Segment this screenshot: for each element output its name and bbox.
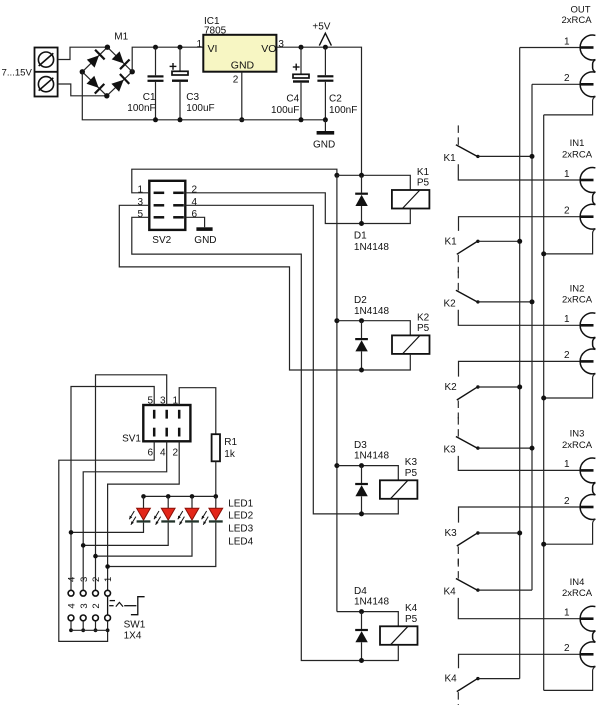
- wire OUT jack 1 pin row: [520, 47, 580, 49]
- svg-text:2: 2: [192, 184, 198, 195]
- bus OUT-1 vertical: [519, 48, 521, 679]
- LED2 emission arrows: [154, 511, 159, 519]
- wire K3a to OUT-2 bus: [478, 447, 532, 449]
- node LED3 cathode junction: [93, 554, 98, 559]
- LED anode rail: [144, 495, 216, 497]
- SW1 bottom stub col 3: [82, 621, 84, 631]
- node LED2 cathode junction: [81, 543, 86, 548]
- SW1 top contact circle col 1: [105, 590, 111, 596]
- wire bridge plus output to unregulated rail: [132, 47, 203, 71]
- svg-text:1: 1: [172, 396, 178, 407]
- svg-text:C3: C3: [186, 92, 199, 103]
- IN3 jack 2 shield arc: [580, 495, 595, 520]
- svg-text:IN3: IN3: [570, 429, 585, 440]
- node C3 top junction: [178, 45, 183, 50]
- terminal block X1 7...15V: [35, 48, 58, 97]
- wire K3 coil top row: [337, 466, 398, 481]
- OUT shield tail to ground bus: [544, 96, 596, 115]
- svg-text:1N4148: 1N4148: [354, 451, 389, 462]
- SW1 common rail: [71, 629, 108, 631]
- svg-text:P5: P5: [417, 178, 430, 189]
- relay coil K4: [380, 626, 418, 645]
- svg-text:3: 3: [79, 577, 90, 582]
- relay contact K3b lever: [457, 533, 478, 546]
- LED2: [167, 496, 169, 508]
- svg-text:SV1: SV1: [122, 434, 141, 445]
- wire SV1 pin 3 to SW1 column 2: [96, 375, 167, 590]
- wire K2 coil bottom row: [362, 354, 411, 370]
- capacitor C4 (electrolytic): [300, 47, 302, 74]
- IN4 shield bridge: [593, 631, 596, 642]
- IN1 jack 2 center pin: [580, 215, 594, 218]
- wire LED3 cathode to SW1: [96, 523, 193, 557]
- relay coil K2: [392, 335, 430, 354]
- LED4 emission arrows: [202, 511, 207, 519]
- svg-text:2: 2: [564, 643, 570, 654]
- svg-text:+5V: +5V: [312, 21, 330, 32]
- svg-text:K2: K2: [444, 298, 457, 309]
- svg-text:K3: K3: [445, 528, 458, 539]
- node C2 bottom junction: [323, 117, 328, 122]
- svg-text:1N4148: 1N4148: [354, 306, 389, 317]
- svg-text:1: 1: [137, 184, 143, 195]
- node D3 cathode junction: [359, 463, 364, 468]
- IN3 jack 1 center pin: [580, 469, 594, 472]
- wire K3 coil bottom row: [362, 499, 399, 514]
- relay contact K4a coupling (dashed): [457, 559, 459, 580]
- svg-text:VO: VO: [261, 43, 276, 55]
- wire terminal- to bridge AC2: [58, 84, 107, 96]
- bridge diode M1b (top vertex to right vertex): [112, 51, 124, 63]
- node IN1 shield on ground bus: [541, 251, 546, 256]
- svg-text:2: 2: [91, 603, 102, 608]
- wire IC1 GND pin to ground rail: [241, 72, 243, 120]
- SW1 bottom stub col 2: [95, 621, 97, 631]
- node D1 anode junction: [359, 221, 364, 226]
- svg-text:K4: K4: [445, 674, 458, 685]
- ground symbol below C2: [324, 120, 326, 131]
- svg-text:1: 1: [564, 608, 570, 619]
- SV1 pin bar bottom col 3: [178, 428, 181, 437]
- node D4 cathode junction: [359, 609, 364, 614]
- svg-text:1: 1: [196, 39, 202, 50]
- svg-text:GND: GND: [194, 235, 216, 246]
- wire +5V rail from IC1 VO: [276, 47, 361, 175]
- node +5V distribution at K2: [334, 318, 339, 323]
- svg-text:K3: K3: [405, 457, 418, 468]
- SW1 actuator ticks: [110, 600, 115, 602]
- svg-text:P5: P5: [405, 614, 418, 625]
- svg-text:1: 1: [564, 36, 570, 47]
- relay contact K1b coupling (dashed): [457, 255, 459, 273]
- wire SV2 pin 3 to K2 coil bottom: [119, 205, 361, 370]
- svg-text:1N4148: 1N4148: [354, 242, 389, 253]
- IN2 jack 1 center pin: [580, 324, 594, 327]
- OUT jack 2 center pin: [580, 83, 594, 86]
- wire K4a to OUT-2 bus: [478, 589, 532, 591]
- svg-text:100nF: 100nF: [329, 105, 357, 116]
- ground rail: [82, 72, 325, 120]
- svg-text:C2: C2: [329, 94, 342, 105]
- svg-text:100nF: 100nF: [127, 103, 155, 114]
- node bridge AC1 (top vertex): [105, 45, 110, 50]
- LED1 emission arrows: [129, 511, 134, 519]
- bridge diode M1a (left vertex to top vertex): [87, 55, 99, 67]
- wire LED2 cathode to SW1: [83, 523, 168, 546]
- IN4 shield tail to ground bus: [544, 666, 596, 690]
- svg-text:2: 2: [564, 73, 570, 84]
- wire LED4 cathode to SW1: [108, 523, 216, 567]
- svg-text:5: 5: [137, 209, 143, 220]
- relay contact K2b coupling (dashed): [457, 401, 459, 419]
- IN2 jack 1 shield arc: [580, 313, 595, 338]
- svg-text:6: 6: [147, 447, 153, 458]
- LED3: [191, 496, 193, 508]
- SW1 bottom contact circle col 4: [68, 615, 74, 621]
- relay contact K1a coupling (dashed): [457, 125, 459, 146]
- node C4 bottom junction: [299, 117, 304, 122]
- node K2b on OUT-1 bus: [517, 385, 522, 390]
- svg-text:D2: D2: [354, 295, 367, 306]
- svg-text:1: 1: [564, 169, 570, 180]
- svg-text:D3: D3: [354, 440, 367, 451]
- capacitor C2: [324, 47, 326, 75]
- svg-text:P5: P5: [405, 468, 418, 479]
- node K1a on OUT-2 bus: [530, 154, 535, 159]
- bridge rectifier M1: [82, 47, 107, 72]
- relay contact K2a lever: [456, 290, 478, 302]
- svg-text:K2: K2: [417, 312, 430, 323]
- wire K1 coil top row: [337, 175, 410, 190]
- svg-text:K3: K3: [444, 445, 457, 456]
- diode D4 1N4148: [361, 612, 363, 629]
- node D4 anode junction: [359, 658, 364, 663]
- wire K1 coil bottom row: [362, 209, 411, 224]
- wire SV1 pin 1 to R1: [179, 388, 216, 435]
- svg-text:5: 5: [147, 396, 153, 407]
- C4 plus sign: [293, 66, 300, 68]
- node C1 bottom junction: [153, 117, 158, 122]
- node D2 anode junction: [359, 368, 364, 373]
- connector SV2: [149, 181, 185, 230]
- SV2 pin bar right row 1: [173, 192, 184, 195]
- svg-text:D4: D4: [354, 586, 367, 597]
- SW1 bottom contact circle col 3: [80, 615, 86, 621]
- node K3b on OUT-1 bus: [517, 531, 522, 536]
- relay contact K3a coupling (dashed): [457, 417, 459, 438]
- svg-text:3: 3: [278, 39, 284, 50]
- svg-text:LED4: LED4: [228, 537, 253, 548]
- IN1 shield tail to ground bus: [544, 229, 596, 254]
- svg-text:LED2: LED2: [228, 511, 253, 522]
- svg-text:2xRCA: 2xRCA: [562, 295, 593, 306]
- node C4 top junction: [299, 45, 304, 50]
- IN3 jack 1 shield arc: [580, 458, 595, 483]
- svg-text:3: 3: [137, 197, 143, 208]
- svg-text:1: 1: [103, 577, 114, 582]
- relay contact K4b coupling (dashed): [457, 692, 459, 705]
- svg-text:4: 4: [160, 447, 166, 458]
- svg-text:4: 4: [192, 197, 198, 208]
- svg-text:LED3: LED3: [228, 523, 253, 534]
- svg-text:2: 2: [564, 350, 570, 361]
- SW1 bottom stub col 4: [70, 621, 72, 631]
- OUT jack 1 center pin: [580, 46, 594, 49]
- SW1 top contact circle col 2: [93, 590, 99, 596]
- wire +5V distribution down to relay tops: [336, 175, 338, 611]
- IN2 jack 2 center pin: [580, 360, 594, 363]
- SW1 top contact circle col 3: [80, 590, 86, 596]
- relay contact K1b lever: [457, 241, 478, 254]
- bus OUT-2 vertical: [531, 84, 533, 590]
- node IN3 shield on ground bus: [541, 542, 546, 547]
- IN4 jack 1 center pin: [580, 617, 594, 620]
- SW1 pole line col 1: [107, 596, 109, 615]
- LED4: [215, 496, 217, 508]
- SV2 pin bar right row 3: [173, 216, 184, 219]
- node D2 cathode junction: [359, 318, 364, 323]
- capacitor C1: [155, 47, 157, 75]
- wire SV1 pin 2 to SW1 column 1: [108, 441, 180, 590]
- IN4 jack 2 shield arc: [580, 642, 595, 667]
- svg-text:4: 4: [67, 577, 78, 582]
- OUT jack 1 shield arc: [580, 35, 595, 60]
- relay coil K1: [392, 190, 430, 209]
- SW1 actuator arrow: [116, 602, 123, 606]
- svg-text:2: 2: [233, 75, 239, 86]
- OUT shield bridge: [593, 60, 596, 73]
- svg-text:M1: M1: [114, 31, 128, 42]
- svg-text:K2: K2: [445, 382, 458, 393]
- node bridge AC2 (bottom vertex): [104, 93, 109, 98]
- relay contact K1a lever: [456, 145, 478, 157]
- svg-text:K1: K1: [444, 153, 457, 164]
- relay contact K3a lever: [456, 437, 478, 449]
- svg-text:7805: 7805: [204, 26, 227, 37]
- svg-text:6: 6: [192, 209, 198, 220]
- svg-text:K4: K4: [405, 603, 418, 614]
- svg-text:1X4: 1X4: [124, 631, 142, 642]
- connector SV1: [143, 405, 190, 441]
- SV1 pin bar bottom col 1: [153, 428, 156, 437]
- node +5V distribution at K3: [334, 463, 339, 468]
- wire OUT jack 2 pin row: [532, 83, 580, 85]
- svg-text:2xRCA: 2xRCA: [562, 440, 593, 451]
- relay contact K2b lever: [457, 387, 478, 400]
- wire K1a to OUT-2 bus: [478, 155, 532, 157]
- relay coil K3: [380, 480, 418, 499]
- wire K4a throw to IN4 jack 1: [458, 598, 580, 619]
- svg-text:C4: C4: [286, 94, 299, 105]
- IN1 jack 1 shield arc: [580, 168, 595, 193]
- wire K2 coil top row: [337, 321, 410, 336]
- SW1 mechanical bracket: [131, 597, 145, 615]
- wire K3a throw to IN3 jack 1: [458, 456, 580, 471]
- svg-text:2xRCA: 2xRCA: [562, 149, 593, 160]
- wire K2b to OUT-1 bus: [478, 386, 520, 388]
- node IN2 shield on ground bus: [541, 396, 546, 401]
- diode D3 1N4148: [361, 466, 363, 483]
- SV1 pin bar top col 1: [153, 410, 156, 419]
- wire SV1 pin 5 to SW1 column 4: [71, 387, 154, 591]
- node K2a on OUT-2 bus: [530, 299, 535, 304]
- capacitor C3 (electrolytic): [179, 47, 181, 71]
- svg-text:7...15V: 7...15V: [2, 68, 33, 79]
- node K3a on OUT-2 bus: [530, 446, 535, 451]
- SW1 top contact circle col 4: [68, 590, 74, 596]
- node D3 anode junction: [359, 511, 364, 516]
- relay contact K4b lever: [457, 678, 478, 691]
- diode D2 1N4148: [361, 321, 363, 338]
- IN3 jack 2 center pin: [580, 506, 594, 509]
- svg-text:IN4: IN4: [570, 577, 585, 588]
- IN3 shield tail to ground bus: [544, 519, 596, 544]
- wire K2a throw to IN2 jack 1: [458, 310, 580, 326]
- svg-text:VI: VI: [208, 43, 218, 55]
- wire K3b to OUT-1 bus: [478, 532, 520, 534]
- relay contact K2a coupling (dashed): [457, 271, 459, 292]
- bus shield vertical: [543, 115, 545, 691]
- svg-text:R1: R1: [224, 437, 237, 448]
- relay contact K3b coupling (dashed): [457, 547, 459, 565]
- C3 plus sign: [170, 65, 177, 67]
- wire LED1 cathode to SW1: [71, 523, 144, 533]
- node C1 top junction: [153, 45, 158, 50]
- svg-text:IN1: IN1: [570, 138, 585, 149]
- wire SV1 pin 4 to SW1 column 3: [83, 441, 167, 590]
- wire terminal+ to bridge AC1: [58, 47, 108, 59]
- ground symbol at SV2 pin 6: [196, 227, 212, 231]
- wire K1b throw to IN1 jack 2: [459, 217, 580, 231]
- wire K1a throw to IN1 jack 1: [458, 164, 580, 180]
- IN2 shield bridge: [593, 337, 596, 349]
- svg-text:SW1: SW1: [124, 620, 146, 631]
- SV2 pin bar left row 2: [154, 204, 165, 207]
- svg-text:2: 2: [91, 577, 102, 582]
- relay contact K4a lever: [456, 579, 478, 591]
- LED1: [143, 496, 145, 508]
- svg-text:3: 3: [160, 396, 166, 407]
- svg-text:C1: C1: [143, 92, 156, 103]
- IN4 jack 2 center pin: [580, 653, 594, 656]
- node C3 bottom junction: [178, 117, 183, 122]
- svg-text:2: 2: [564, 496, 570, 507]
- svg-text:1: 1: [564, 314, 570, 325]
- svg-text:P5: P5: [417, 323, 430, 334]
- node D1 cathode junction: [359, 173, 364, 178]
- node +5V distribution junction: [334, 173, 339, 178]
- svg-text:D1: D1: [354, 230, 367, 241]
- svg-text:3: 3: [79, 603, 90, 608]
- SV1 pin bar bottom col 2: [165, 428, 168, 437]
- wire K2b throw to IN2 jack 2: [459, 361, 580, 376]
- wire K3b throw to IN3 jack 2: [459, 507, 580, 523]
- wire SV2 pin 5 to K4 coil bottom: [132, 217, 362, 660]
- node bridge minus (left vertex): [80, 69, 85, 74]
- wire K1b to OUT-1 bus: [478, 240, 520, 242]
- svg-text:K4: K4: [444, 587, 457, 598]
- wire K4b to OUT-1 bus: [478, 678, 520, 680]
- svg-text:2: 2: [564, 206, 570, 217]
- node LED4 cathode junction: [105, 564, 110, 569]
- svg-text:SV2: SV2: [152, 235, 171, 246]
- SV1 pin bar top col 3: [178, 410, 181, 419]
- SV1 pin bar top col 2: [165, 410, 168, 419]
- svg-text:GND: GND: [231, 60, 255, 72]
- node IC1 GND on ground rail: [239, 117, 244, 122]
- SV2 pin bar right row 2: [173, 204, 184, 207]
- resistor R1: [212, 434, 220, 461]
- wire K2a to OUT-2 bus: [478, 301, 532, 303]
- wire SV2 pin 4 to K3 coil bottom: [185, 205, 361, 514]
- IN1 shield bridge: [593, 192, 596, 205]
- wire SV2 pin 6 to ground symbol: [185, 217, 204, 227]
- node LED1 cathode junction: [69, 530, 74, 535]
- wire SV2 pin 1 to +5V relay rail: [132, 169, 337, 193]
- IN2 shield tail to ground bus: [544, 373, 596, 398]
- IN2 jack 2 shield arc: [580, 349, 595, 374]
- SV2 pin bar left row 3: [154, 216, 165, 219]
- svg-text:1k: 1k: [224, 449, 236, 460]
- svg-text:GND: GND: [313, 139, 335, 150]
- svg-text:1: 1: [564, 459, 570, 470]
- wire SV2 pin 2 to K1 coil bottom: [185, 193, 361, 224]
- IN3 shield bridge: [593, 482, 596, 494]
- SW1 bottom stub col 1: [107, 621, 109, 631]
- OUT jack 2 shield arc: [580, 72, 595, 97]
- svg-text:2xRCA: 2xRCA: [561, 15, 592, 26]
- svg-text:K1: K1: [417, 167, 430, 178]
- SW1 bottom contact circle col 2: [93, 615, 99, 621]
- SV2 pin bar left row 1: [154, 192, 165, 195]
- svg-text:LED1: LED1: [228, 498, 253, 509]
- svg-text:2xRCA: 2xRCA: [562, 588, 593, 599]
- svg-text:2: 2: [172, 447, 178, 458]
- wire K4 coil top row: [337, 612, 398, 627]
- svg-text:100uF: 100uF: [271, 105, 299, 116]
- svg-text:4: 4: [67, 603, 78, 608]
- wire K4 coil bottom row: [362, 645, 399, 661]
- voltage regulator IC1 7805: [203, 35, 276, 72]
- node bridge plus (right vertex): [130, 69, 135, 74]
- wire R1 to LED anode rail: [215, 461, 217, 496]
- IN1 jack 1 center pin: [580, 179, 594, 182]
- svg-text:100uF: 100uF: [186, 103, 214, 114]
- bridge diode M1d (bottom vertex to right vertex): [111, 80, 123, 92]
- bridge diode M1c (left vertex to bottom vertex): [87, 76, 99, 88]
- SW1 bottom contact circle col 1: [105, 615, 111, 621]
- node C2 / +5V junction: [323, 45, 328, 50]
- node K1b on OUT-1 bus: [517, 239, 522, 244]
- IN1 jack 2 shield arc: [580, 204, 595, 229]
- diode D1 1N4148: [361, 175, 363, 192]
- LED3 emission arrows: [178, 511, 183, 519]
- wire K4b throw to IN4 jack 2: [459, 654, 580, 668]
- svg-text:1N4148: 1N4148: [354, 597, 389, 608]
- +5V supply symbol: [319, 33, 331, 45]
- svg-text:IN2: IN2: [570, 284, 585, 295]
- IN4 jack 1 shield arc: [580, 606, 595, 631]
- svg-text:K1: K1: [445, 236, 458, 247]
- wire SV1 pin 6 to SW1 common: [59, 441, 154, 641]
